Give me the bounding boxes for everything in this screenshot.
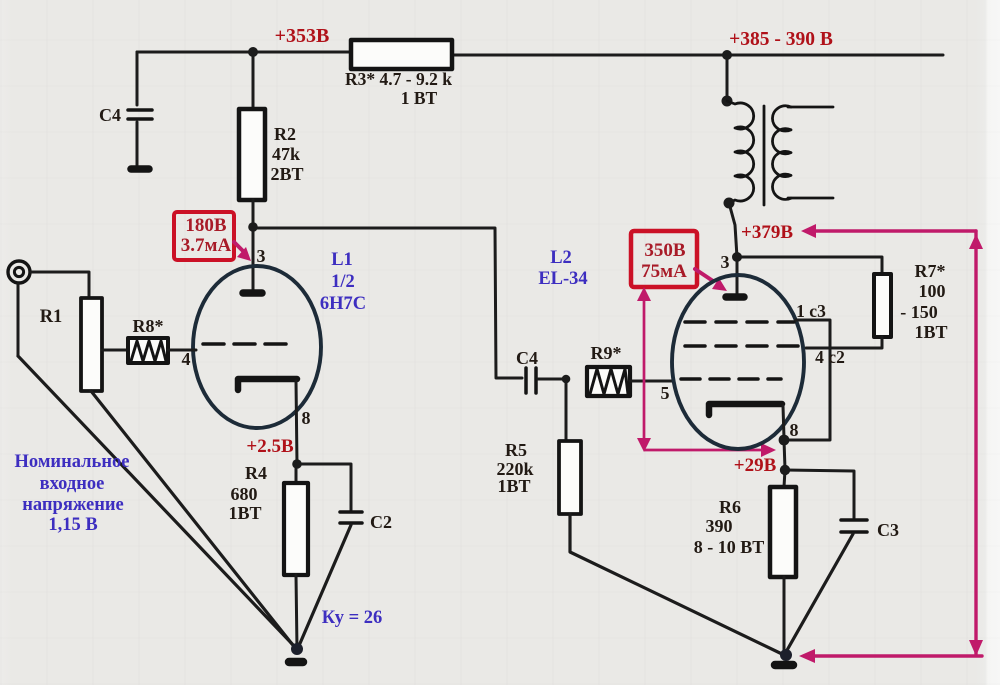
- wire: node to C3: [785, 470, 854, 518]
- arrow: magenta left at L2 ground: [799, 649, 815, 663]
- wire: rail to R2: [252, 52, 255, 109]
- resistor R9: [587, 367, 630, 396]
- svg-text:100: 100: [919, 281, 946, 301]
- arrow: magenta up below 350V box: [637, 287, 651, 301]
- node: L2 cathode node: [779, 435, 790, 446]
- wire: R1 to R8: [102, 349, 128, 352]
- svg-text:3: 3: [257, 246, 266, 266]
- svg-text:3.7мА: 3.7мА: [181, 235, 232, 256]
- tube L2 g1 dashes: [681, 377, 781, 381]
- annotation box 350V: [631, 231, 697, 287]
- node: R6-C3 node: [780, 465, 790, 475]
- wire: magenta vertical g1 measure: [643, 298, 646, 440]
- wire: L1 anode lead: [252, 228, 255, 290]
- wire: transformer to L2 anode: [729, 203, 737, 257]
- svg-text:8 - 10 BT: 8 - 10 BT: [694, 537, 765, 557]
- wire: L2 cathode down: [783, 406, 784, 438]
- svg-text:C4: C4: [99, 105, 121, 125]
- svg-text:75мА: 75мА: [641, 261, 687, 282]
- wire: node to R4: [295, 464, 298, 483]
- tube L1 envelope: [193, 266, 321, 428]
- capacitor C3 bottom plate: [841, 530, 867, 534]
- svg-text:R4: R4: [245, 463, 267, 483]
- ground: under C4 left: [131, 165, 149, 173]
- wire: C4 left branch from rail: [136, 52, 139, 105]
- svg-text:R3* 4.7 - 9.2 k: R3* 4.7 - 9.2 k: [345, 69, 452, 89]
- node: L1 cathode node: [292, 459, 302, 469]
- wire: magenta horizontal to cathode: [645, 449, 762, 452]
- wire: jack down: [17, 284, 20, 356]
- tube L2 envelope: [672, 275, 804, 449]
- svg-text:3: 3: [721, 252, 730, 272]
- wire: magenta top horizontal: [814, 229, 976, 232]
- wire: node to R6: [784, 470, 785, 487]
- wire: R9 to grid L2: [630, 380, 674, 383]
- wire: magenta right vertical: [974, 231, 977, 654]
- resistor R4: [284, 483, 308, 575]
- wire: R8 to grid L1: [168, 349, 196, 352]
- wire: top rail left segment: [137, 51, 353, 54]
- svg-text:напряжение: напряжение: [22, 495, 124, 515]
- wire: node to R5: [565, 379, 568, 441]
- svg-text:EL-34: EL-34: [538, 269, 587, 289]
- svg-text:+2.5В: +2.5В: [246, 436, 294, 457]
- node: transformer bottom: [724, 198, 735, 209]
- wire: C4 left to ground: [136, 122, 139, 165]
- svg-text:8: 8: [790, 420, 799, 440]
- svg-text:C2: C2: [370, 512, 392, 532]
- transformer primary winding: [727, 101, 754, 203]
- capacitor C4 left plate top: [128, 108, 152, 112]
- wire: g3 to cathode node: [787, 320, 830, 440]
- node: L2 ground node: [780, 649, 792, 661]
- capacitor C2 bottom plate: [340, 521, 362, 525]
- wire: anode node to R7: [737, 257, 882, 274]
- node: L2 anode node: [732, 252, 742, 262]
- svg-text:Ку = 26: Ку = 26: [322, 608, 383, 628]
- arrow: magenta down on right rail: [969, 640, 983, 656]
- wire: R7 to g2: [806, 337, 882, 348]
- wire: transformer top lead: [726, 55, 729, 100]
- svg-text:Номинальное: Номинальное: [15, 452, 130, 472]
- svg-text:180В: 180В: [185, 215, 227, 236]
- wire: C4 to R9 node: [538, 378, 566, 381]
- svg-text:1 BT: 1 BT: [401, 88, 438, 108]
- svg-text:R8*: R8*: [133, 316, 164, 336]
- capacitor C3 top plate: [841, 518, 867, 522]
- svg-text:R6: R6: [719, 497, 741, 517]
- ground: L1 stage: [289, 658, 303, 667]
- svg-text:- 150: - 150: [900, 302, 938, 322]
- ground: L2 stage: [775, 661, 793, 670]
- tube L2 g3 dashes: [685, 320, 794, 324]
- capacitor C2 top plate: [340, 510, 362, 514]
- arrow: magenta right at cathode: [761, 443, 776, 457]
- wire: R4 to ground: [296, 575, 297, 649]
- capacitor C4 coupling right plate: [534, 368, 538, 393]
- resistor R1: [81, 298, 102, 391]
- wire: L2 anode lead: [736, 257, 739, 293]
- svg-text:R1: R1: [40, 307, 63, 327]
- resistor R8: [128, 338, 168, 363]
- node: C4-R9-R5 node: [562, 375, 571, 384]
- arrow: 350V box to anode: [695, 269, 727, 291]
- transformer secondary winding: [772, 106, 791, 200]
- input jack: [8, 261, 30, 283]
- wire: L1 cathode to node: [296, 381, 297, 464]
- wire: R6 to ground: [783, 577, 786, 653]
- svg-text:390: 390: [706, 516, 733, 536]
- svg-text:1BT: 1BT: [497, 476, 530, 496]
- resistor R7: [874, 274, 891, 337]
- svg-text:L1: L1: [331, 250, 353, 270]
- svg-text:L2: L2: [550, 248, 572, 268]
- resistor R3: [351, 40, 452, 69]
- arrow: magenta left at +379B: [801, 224, 816, 238]
- wire: R2 to anode node: [252, 200, 255, 228]
- svg-text:R7*: R7*: [915, 261, 946, 281]
- svg-text:4: 4: [182, 349, 191, 369]
- wire: jack to R1: [31, 272, 89, 298]
- arrow: magenta up on right rail: [969, 234, 983, 249]
- svg-text:1 c3: 1 c3: [796, 301, 826, 321]
- svg-text:8: 8: [302, 408, 311, 428]
- svg-text:R2: R2: [274, 124, 296, 144]
- svg-text:+353B: +353B: [275, 25, 330, 47]
- wire: jack slant to ground: [18, 356, 296, 648]
- wire: secondary top lead: [788, 106, 833, 109]
- tube L2 g2 dashes: [685, 344, 806, 348]
- svg-text:+29В: +29В: [734, 455, 777, 476]
- node: L1 ground node: [291, 643, 303, 655]
- svg-text:47k: 47k: [272, 144, 300, 164]
- tube L2 cathode: [709, 404, 782, 415]
- transformer core: [763, 106, 766, 205]
- svg-text:680: 680: [231, 484, 258, 504]
- svg-text:6Н7С: 6Н7С: [320, 294, 366, 314]
- node: +353V junction: [248, 47, 258, 57]
- tube L1 grid dashes: [203, 342, 287, 346]
- tube L1 anode plate: [243, 289, 262, 297]
- svg-text:R5: R5: [505, 440, 527, 460]
- wire: top rail right segment: [451, 54, 943, 57]
- wire: cathode node down: [784, 440, 785, 469]
- arrow: 180V box to anode: [234, 242, 251, 261]
- node: L1 anode node: [248, 222, 258, 232]
- wire: C3 to ground slant: [786, 534, 853, 652]
- wire: secondary bottom lead: [788, 197, 833, 200]
- tube L2 anode plate: [726, 293, 744, 301]
- capacitor C4 left plate bottom: [128, 117, 152, 121]
- svg-text:C3: C3: [877, 520, 899, 540]
- wire: R5 to ground slant: [570, 514, 782, 654]
- arrow: magenta down at corner: [637, 438, 651, 452]
- svg-text:4 c2: 4 c2: [815, 347, 845, 367]
- svg-text:+379В: +379В: [741, 222, 793, 243]
- svg-text:1/2: 1/2: [331, 272, 355, 292]
- tube L1 cathode: [238, 379, 297, 390]
- svg-text:+385 - 390 B: +385 - 390 B: [729, 29, 833, 50]
- wire: node to C2: [297, 464, 351, 510]
- svg-text:350В: 350В: [644, 240, 686, 261]
- svg-text:1,15 В: 1,15 В: [48, 515, 97, 535]
- svg-text:C4: C4: [516, 348, 538, 368]
- wire: anode node to coupling corner: [253, 228, 522, 378]
- node: +385V junction: [722, 50, 732, 60]
- node: transformer top: [722, 96, 733, 107]
- svg-text:5: 5: [661, 383, 670, 403]
- wire: magenta bottom horizontal: [812, 654, 982, 657]
- svg-text:1BT: 1BT: [228, 503, 261, 523]
- annotation box 180V: [174, 212, 234, 260]
- svg-text:1BT: 1BT: [914, 322, 947, 342]
- svg-text:R9*: R9*: [591, 343, 622, 363]
- wire: R1 bottom slant to ground: [91, 391, 296, 649]
- capacitor C4 coupling left plate: [524, 368, 528, 393]
- svg-text:входное: входное: [40, 474, 105, 494]
- resistor R5: [559, 441, 581, 514]
- wire: C2 to ground slant: [298, 525, 351, 648]
- resistor R6: [770, 487, 796, 577]
- svg-text:2BT: 2BT: [270, 164, 303, 184]
- resistor R2: [239, 109, 265, 200]
